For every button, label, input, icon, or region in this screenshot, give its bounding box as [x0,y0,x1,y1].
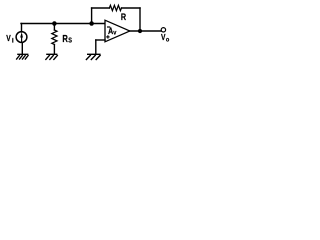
op-amp minus sign [107,26,110,28]
wire Vi stem top [21,24,23,33]
terminal Vo circle [161,28,165,32]
svg-text:R: R [62,33,68,44]
svg-text:R: R [121,11,126,22]
wire plus input horizontal [96,39,105,41]
ground under Vi [16,54,28,59]
wire plus input vertical [95,40,97,54]
resistor RS zigzag [52,30,57,44]
wire output [130,30,161,32]
source Vi circle [16,32,27,43]
svg-text:i: i [12,37,14,44]
wire feedback top left [92,7,110,9]
resistor R zigzag [109,5,121,10]
op-amp plus sign [106,36,109,38]
node junction at output [138,29,142,33]
op-amp AV triangle [105,20,130,42]
wire Vi stem bottom [21,42,23,54]
wire Rs stem bottom [53,45,55,55]
ground under RS [45,54,57,60]
svg-text:A: A [108,25,113,36]
wire Rs stem top [53,24,55,31]
node junction at feedback tap [89,21,94,26]
wire feedback top right [122,7,141,9]
wire input bus [21,23,105,25]
node junction at Rs top [52,21,57,26]
wire feedback left vertical [91,8,93,24]
svg-text:o: o [166,36,170,44]
source Vi arrow [20,32,23,42]
svg-text:v: v [113,29,117,37]
svg-text:S: S [68,37,72,45]
wire feedback right vertical [139,8,141,31]
ground at op-amp plus input [86,54,101,60]
